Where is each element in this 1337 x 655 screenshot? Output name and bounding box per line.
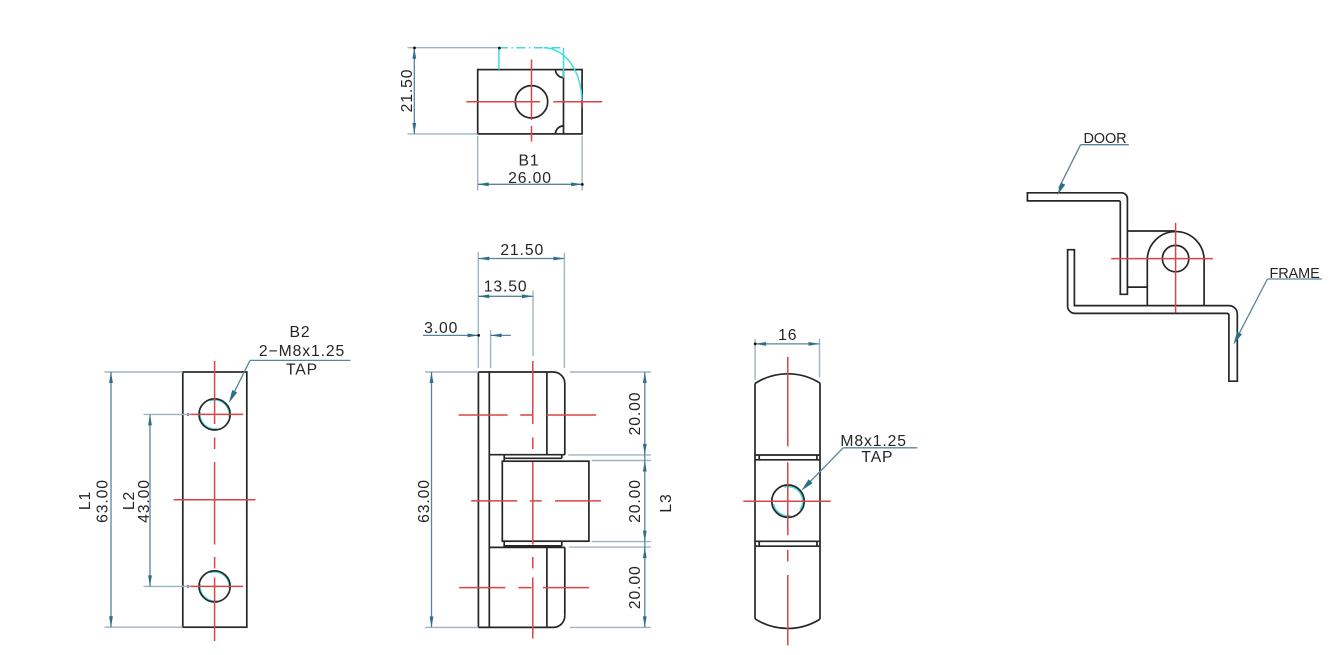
top knuckle bottom edge [489, 454, 565, 456]
middle centerline [471, 500, 601, 502]
frame profile [1068, 250, 1238, 382]
door closed position line [499, 47, 564, 49]
svg-text:20.00: 20.00 [627, 392, 644, 436]
dim 3.00 lines [423, 334, 511, 336]
dim 21.50 extension lines [408, 48, 499, 134]
dim L2 extension lines [144, 414, 191, 586]
bottom hole centerline [190, 585, 244, 587]
VIEW2: left leaf face view [77, 324, 351, 641]
leader underline M8 [843, 447, 917, 449]
leader arrow FRAME [1234, 332, 1243, 345]
left leaf edge line outer [477, 372, 479, 627]
joint line bottom [504, 545, 562, 547]
leader arrow B2 [229, 390, 237, 403]
defpoint dots [413, 47, 416, 50]
VIEW3: front view of hinge [416, 242, 675, 638]
dim 63.00 arrows (front) [430, 372, 434, 627]
door swing arc [544, 48, 582, 101]
svg-text:43.00: 43.00 [136, 479, 153, 523]
svg-text:13.50: 13.50 [484, 279, 528, 296]
door panel profile [1027, 193, 1127, 294]
barrel bottom arc [755, 619, 820, 629]
svg-text:3.00: 3.00 [424, 320, 458, 337]
dim L1 extension lines [105, 372, 183, 627]
leaf plate outline [183, 372, 247, 627]
dim 13.50 line [478, 295, 533, 297]
dim 3.00 extension line [490, 330, 492, 368]
leaf right edge [819, 383, 821, 619]
bottom knuckle barrel line [546, 547, 548, 627]
svg-text:20.00: 20.00 [627, 479, 644, 523]
svg-text:TAP: TAP [286, 361, 318, 378]
dim 20.00 line [644, 372, 646, 627]
top knuckle barrel line [546, 372, 548, 455]
dim L1 arrows [109, 372, 113, 627]
thread arcs bottom hole [200, 572, 229, 601]
joint line top [504, 457, 562, 459]
dim 20.00 extension lines [568, 372, 651, 627]
hinge body outline (top view) [478, 70, 582, 134]
hole centerline [743, 500, 830, 502]
dim 3.00 arrows [468, 334, 502, 338]
dim 21.50 arrows (front) [478, 257, 564, 261]
dim B1 extension lines [478, 136, 582, 191]
top knuckle right edge [564, 384, 566, 455]
dim L2 line [149, 414, 151, 586]
svg-text:26.00: 26.00 [508, 170, 552, 187]
door swing construction line left [498, 48, 500, 70]
top edge [478, 372, 564, 384]
dim 21.50 line (front) [478, 258, 564, 260]
dim 20.00 arrows middle [643, 461, 647, 542]
svg-text:L1: L1 [77, 491, 94, 510]
svg-text:L3: L3 [658, 493, 675, 512]
dim L1 line [110, 372, 112, 627]
dim 21.50 extension lines [478, 252, 564, 368]
VIEW5: installed section view [1027, 131, 1321, 381]
tapped hole bottom [199, 571, 230, 602]
bottom knuckle right edge [564, 547, 566, 616]
dim 16 line [755, 343, 819, 345]
tapped hole [772, 485, 804, 517]
bottom edge [478, 616, 564, 628]
joint band bottom [755, 541, 820, 546]
tapped hole top [199, 399, 230, 430]
barrel top arc [755, 374, 820, 384]
dim 20.00 arrows top [643, 372, 647, 455]
top hole centerline [459, 414, 597, 416]
dim 13.50 extension line [532, 290, 534, 356]
leader line DOOR [1059, 145, 1081, 189]
joint band top [755, 455, 820, 460]
leader line M8 [803, 448, 843, 489]
defpoint dot top hole [187, 413, 190, 416]
thread arcs top hole [200, 400, 229, 429]
leader underline FRAME [1267, 278, 1321, 280]
dim 13.50 arrows [478, 294, 533, 298]
joint tick left bottom [503, 541, 505, 547]
dim 63.00 extension lines (front) [425, 372, 478, 627]
top hole centerline [190, 413, 244, 415]
dim 21.50 arrows [412, 48, 416, 134]
dim 21.50 line [413, 48, 415, 134]
tapped hole (top view) [515, 86, 547, 118]
joint tick left top [503, 455, 505, 462]
knuckle edge line [563, 70, 565, 134]
centerline horizontal [466, 101, 602, 103]
svg-text:16: 16 [778, 327, 797, 344]
leader arrow DOOR [1057, 183, 1065, 196]
middle knuckle outline [502, 461, 589, 541]
svg-text:TAP: TAP [861, 449, 893, 466]
pin centerline horizontal [1111, 258, 1213, 260]
vertical centerline [532, 361, 534, 639]
knuckle outline [1147, 232, 1204, 306]
door leaf bottom edge [1127, 286, 1147, 288]
thread arcs [774, 487, 803, 516]
joint tick right bottom [561, 541, 563, 546]
svg-text:21.50: 21.50 [399, 69, 416, 113]
VIEW1: top view of hinge [399, 47, 602, 191]
svg-text:20.00: 20.00 [627, 565, 644, 609]
joint tick right top [561, 455, 563, 459]
vertical centerline [214, 361, 216, 641]
leader arrow M8 [802, 479, 813, 490]
leaf left edge [754, 384, 756, 619]
leader line FRAME [1236, 279, 1268, 341]
leader underline B2 [250, 359, 351, 361]
bottom hole centerline [459, 587, 589, 589]
fillet notch bottom [556, 126, 564, 134]
left leaf edge line inner [488, 372, 490, 627]
door leaf top edge [1127, 230, 1175, 232]
vertical centerline [787, 357, 789, 646]
pin axis tick [581, 96, 583, 109]
door swing construction line right [563, 48, 565, 78]
dim L2 arrows [148, 414, 152, 586]
dim 63.00 line (front) [431, 372, 433, 627]
svg-text:21.50: 21.50 [500, 242, 544, 259]
svg-text:63.00: 63.00 [95, 479, 112, 523]
dim 16 extension lines [755, 339, 819, 381]
pin centerline vertical [1175, 223, 1177, 313]
dim B1 line [478, 183, 582, 185]
hinge pin [1162, 245, 1188, 271]
centerline vertical [531, 60, 533, 142]
dim B1 arrows [478, 182, 582, 186]
leader underline DOOR [1081, 144, 1129, 146]
mid crosshair centerline [174, 499, 256, 501]
VIEW4: side view of leaf [743, 327, 917, 646]
svg-text:B2: B2 [290, 324, 311, 341]
dim 16 arrows [755, 342, 819, 346]
bottom knuckle top edge [489, 546, 565, 548]
svg-text:63.00: 63.00 [416, 479, 433, 523]
fillet notch top [556, 70, 564, 78]
leader line B2 [231, 360, 251, 399]
dim 20.00 arrows bottom [643, 547, 647, 627]
defpoint dot bottom hole [187, 585, 190, 588]
svg-text:B1: B1 [519, 153, 540, 170]
svg-text:2−M8x1.25: 2−M8x1.25 [259, 343, 345, 360]
